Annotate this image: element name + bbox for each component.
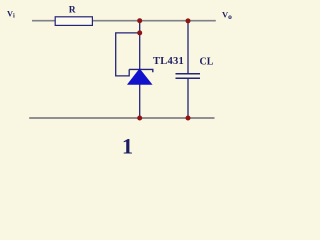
capacitor CL bottom plate: [176, 77, 201, 79]
op-amp U1 TL431 cathode bar: [129, 69, 153, 72]
svg-text:TL431: TL431: [153, 56, 184, 67]
svg-text:1: 1: [122, 133, 133, 158]
wire output node down to capacitor CL: [187, 21, 189, 74]
ground rail: [29, 117, 214, 119]
op-amp U1 TL431 triangle: [128, 69, 152, 84]
svg-text:R: R: [69, 6, 76, 16]
wire resistor R to output node: [92, 20, 216, 22]
junction feedback node: [137, 30, 142, 35]
svg-text:CL: CL: [200, 57, 214, 68]
capacitor CL top plate: [176, 73, 201, 75]
wire TL431 anode to ground rail: [139, 84, 141, 118]
junction capacitor ground node: [186, 116, 191, 121]
junction anode ground node: [137, 116, 142, 121]
svg-text:Vo: Vo: [222, 10, 232, 22]
wire output node down to TL431 cathode: [139, 21, 141, 70]
resistor R: [55, 17, 92, 26]
junction capacitor top node: [186, 18, 191, 23]
junction output node top: [137, 18, 142, 23]
wire capacitor CL to ground rail: [187, 78, 189, 118]
wire Vi to resistor R: [32, 20, 56, 22]
wire feedback: node to TL431 reference: [116, 33, 140, 76]
